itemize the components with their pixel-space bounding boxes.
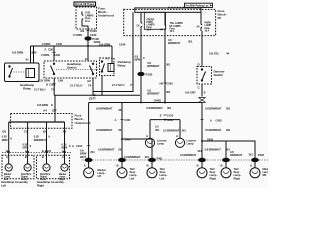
svg-text:Lamp: Lamp xyxy=(157,142,164,146)
svg-text:0.8 GRY: 0.8 GRY xyxy=(185,90,196,94)
svg-text:C101: C101 xyxy=(45,149,52,153)
wire GRY 8 dimmer to splice xyxy=(201,84,203,97)
marker lamp LR xyxy=(84,162,94,178)
caption headlamp assembly right xyxy=(37,180,66,187)
caption headlamp assembly left xyxy=(1,180,30,187)
headlamp switch dashed box xyxy=(44,61,97,78)
connector C100 terminal labels xyxy=(81,29,98,33)
svg-text:1340: 1340 xyxy=(58,80,64,83)
parklamp relay dashed box xyxy=(100,58,115,76)
bus bar rect inside I/P fuse block xyxy=(135,8,201,12)
splice S404 xyxy=(121,138,123,140)
right trunk below splice xyxy=(201,103,203,142)
wire rail to headlamp switch xyxy=(53,46,55,61)
svg-text:301: 301 xyxy=(155,128,160,132)
svg-text:A: A xyxy=(210,118,212,122)
svg-text:Underhood: Underhood xyxy=(75,121,91,125)
marker lamp RR xyxy=(250,162,260,178)
svg-text:I/P: I/P xyxy=(218,16,222,20)
svg-text:301: 301 xyxy=(198,149,203,153)
connector P100 oval on wire A xyxy=(138,72,144,75)
splice S402 xyxy=(201,140,203,142)
front lamp wires xyxy=(9,128,65,164)
C101 connector bumps xyxy=(8,151,66,153)
svg-text:15 A: 15 A xyxy=(85,20,90,23)
svg-text:S419: S419 xyxy=(167,118,174,122)
connector P100 oval xyxy=(85,37,91,40)
branch wires right xyxy=(202,141,255,163)
connector C410 xyxy=(164,114,167,116)
svg-text:WHT: WHT xyxy=(80,155,86,159)
svg-text:1340: 1340 xyxy=(30,50,37,54)
connector ovals xyxy=(199,158,206,161)
bus bar xyxy=(9,121,65,123)
svg-text:2 ORN: 2 ORN xyxy=(41,53,49,57)
dimmer switch dashed box xyxy=(197,67,212,85)
parklamp relay coil xyxy=(108,64,114,72)
fuse PARK LAMP 15A xyxy=(197,12,212,32)
wire BRN/WHT rail xyxy=(89,102,202,104)
svg-text:0.8 BRN/WHT: 0.8 BRN/WHT xyxy=(205,148,222,152)
svg-text:0.8 ORN: 0.8 ORN xyxy=(99,42,110,46)
connector oval xyxy=(85,158,92,161)
svg-text:P402: P402 xyxy=(258,153,265,157)
svg-text:BRN: BRN xyxy=(135,58,141,62)
svg-text:A: A xyxy=(62,149,64,153)
wire junction to switch E1 xyxy=(87,46,89,61)
connector C402 xyxy=(201,119,204,121)
svg-text:301: 301 xyxy=(226,128,231,132)
fuse block I/P dashed box xyxy=(124,9,216,35)
svg-text:P100: P100 xyxy=(146,72,153,76)
svg-text:301: 301 xyxy=(90,150,95,154)
svg-text:301: 301 xyxy=(188,40,193,44)
headlamp assembly right dashed box xyxy=(37,155,70,179)
svg-text:0.8 ORN: 0.8 ORN xyxy=(12,50,23,54)
svg-text:BRN/WHT: BRN/WHT xyxy=(230,153,243,157)
svg-text:B: B xyxy=(6,149,8,153)
fuse block underhood (top) dashed box xyxy=(76,7,97,29)
svg-text:#1: #1 xyxy=(106,56,110,60)
wire labels 2 ORN 1340 / 2 C201 / 2 ORN 1340 xyxy=(41,42,62,57)
label box Hot With Parking Lamps xyxy=(168,3,213,7)
svg-text:A: A xyxy=(115,118,117,122)
tail stop lamp right 2 xyxy=(221,162,231,178)
svg-text:0.8 BRN/WHT: 0.8 BRN/WHT xyxy=(96,107,113,111)
label Fuse Block - Underhood xyxy=(98,6,114,17)
svg-text:A: A xyxy=(25,149,27,153)
svg-text:301: 301 xyxy=(118,108,123,112)
svg-text:Underhood: Underhood xyxy=(98,14,114,18)
splice symbol xyxy=(199,98,206,103)
svg-text:E1: E1 xyxy=(85,57,89,61)
svg-text:44: 44 xyxy=(226,52,230,56)
connector C401 xyxy=(121,119,124,121)
svg-text:RR: RR xyxy=(263,173,267,177)
splice S408 xyxy=(164,102,166,104)
marker lamp left xyxy=(5,164,12,171)
wire parklamp relay output xyxy=(101,76,103,96)
wire label 0.8 ORN 1340 xyxy=(12,50,37,54)
svg-text:BRN/WHT: BRN/WHT xyxy=(168,41,181,45)
svg-text:A2: A2 xyxy=(87,79,91,83)
svg-text:0.8 BRN: 0.8 BRN xyxy=(37,103,48,107)
terminals D6 C5 B5 A5 xyxy=(2,129,66,133)
branch wire to second tail lamp xyxy=(122,139,152,163)
caption Headlamp Switch xyxy=(67,62,81,70)
caption Dimmer Switch xyxy=(214,70,226,78)
svg-text:2 ORN: 2 ORN xyxy=(42,42,50,46)
svg-text:C2: C2 xyxy=(52,109,56,113)
wire switch left pole drop xyxy=(53,78,55,95)
marker lamp right xyxy=(61,164,68,171)
fuse block underhood (bottom) dashed box xyxy=(11,114,72,129)
branch marker LR: wire down xyxy=(88,103,90,164)
svg-text:A4: A4 xyxy=(43,109,47,113)
headlamp assembly left dashed box xyxy=(2,155,34,179)
svg-text:74: 74 xyxy=(130,83,134,87)
svg-text:0.8 BRN/WHT: 0.8 BRN/WHT xyxy=(96,128,113,132)
svg-text:BRN/WHT: BRN/WHT xyxy=(147,92,160,96)
dimmer switch contact xyxy=(201,69,205,81)
svg-text:74: 74 xyxy=(88,84,92,88)
fuse TAIL LAMPS 15A xyxy=(160,12,183,33)
svg-text:Left: Left xyxy=(130,176,135,180)
svg-text:15 A: 15 A xyxy=(205,29,210,32)
svg-text:1340: 1340 xyxy=(56,42,62,46)
svg-text:Lamp: Lamp xyxy=(187,142,194,146)
switch pole right xyxy=(90,63,94,75)
svg-text:301: 301 xyxy=(167,106,172,110)
svg-text:0.5 BRN/WHT: 0.5 BRN/WHT xyxy=(163,128,180,132)
svg-text:0.8 BRN/WHT: 0.8 BRN/WHT xyxy=(180,153,197,157)
svg-text:Relay: Relay xyxy=(118,64,126,68)
splice S419 xyxy=(164,119,166,121)
wire labels col1 0.35 BRN 9 xyxy=(2,135,13,142)
label Fuse Block - Underhood xyxy=(75,114,91,125)
svg-text:LR: LR xyxy=(98,174,102,178)
svg-text:C410: C410 xyxy=(167,113,174,117)
tail stop lamp left 2 xyxy=(147,162,157,178)
svg-text:2 LT BLU: 2 LT BLU xyxy=(112,83,124,87)
svg-text:Switch: Switch xyxy=(214,73,224,77)
svg-text:301: 301 xyxy=(166,90,171,94)
svg-text:301: 301 xyxy=(145,155,150,159)
svg-text:BRN/WHT: BRN/WHT xyxy=(147,64,160,68)
svg-text:#1: #1 xyxy=(26,57,30,61)
svg-text:C201: C201 xyxy=(49,82,56,86)
svg-text:301: 301 xyxy=(118,128,123,132)
license lamp Y split xyxy=(150,120,180,138)
park/turn lamp right xyxy=(43,164,50,171)
fuse AUX LAMPS 15A xyxy=(82,12,94,30)
headlamp relay contact xyxy=(9,66,26,77)
svg-text:Switch: Switch xyxy=(67,65,77,69)
switch pole left xyxy=(51,63,55,75)
svg-text:E: E xyxy=(160,113,162,117)
svg-text:15 A: 15 A xyxy=(147,29,152,32)
wire fuse to junction xyxy=(87,29,89,46)
wire labels col3 0.35 BRN/WHT 9 xyxy=(34,135,51,142)
svg-text:C102: C102 xyxy=(76,144,83,148)
connector ovals xyxy=(119,158,126,161)
svg-text:0.8 YEL: 0.8 YEL xyxy=(209,52,219,56)
wire labels 0.35 ORN 1340 / B C201 / 2 LT BLU 74 xyxy=(34,79,64,92)
wire park rail xyxy=(54,94,140,96)
fuse FRT PARK LAMPS xyxy=(137,12,166,31)
wire label 2 ORN 1340 xyxy=(73,33,97,37)
svg-text:1340: 1340 xyxy=(119,42,126,46)
svg-text:C201: C201 xyxy=(48,48,55,52)
svg-text:Relay: Relay xyxy=(23,87,31,91)
svg-text:B: B xyxy=(46,82,48,86)
wire label 2 LT BLU 74 xyxy=(112,83,134,87)
svg-text:B: B xyxy=(42,149,44,153)
wire park feed from IP fuse block xyxy=(93,12,133,91)
wire ORN rail xyxy=(31,45,113,47)
trunk B below S408 xyxy=(146,106,171,110)
body connector dashed line xyxy=(82,159,268,161)
connector C102 xyxy=(87,145,90,147)
license lamp 2 xyxy=(175,138,184,147)
wire label 0.8 ORN 1340 right of junction xyxy=(99,42,126,46)
svg-text:Left: Left xyxy=(160,176,165,180)
svg-text:Right: Right xyxy=(210,176,217,180)
svg-text:0.8 BRN/WHT: 0.8 BRN/WHT xyxy=(98,147,115,151)
caption Headlamp Relay xyxy=(20,83,34,91)
branch tail/stop left pair: wire down xyxy=(121,103,123,164)
label box Hot at All Times xyxy=(74,2,96,6)
wire BRN 9 from I/P fuse (wire A) xyxy=(140,30,142,103)
wire labels col4 0.35 BRN 9 xyxy=(62,142,72,149)
mechanical link dashed xyxy=(56,69,103,71)
svg-text:Left: Left xyxy=(1,183,6,187)
headlamp relay box xyxy=(5,63,40,82)
svg-text:0.8 BRN/WHT: 0.8 BRN/WHT xyxy=(205,106,222,110)
svg-text:2 LT BLU: 2 LT BLU xyxy=(34,88,45,92)
svg-text:2 ORN: 2 ORN xyxy=(73,33,82,37)
svg-text:S277: S277 xyxy=(89,97,96,101)
svg-text:0.8 BRN/WHT: 0.8 BRN/WHT xyxy=(146,106,163,110)
wire BRN/WHT 301 trunk (wire B) xyxy=(164,32,166,103)
connector C101 dashed line xyxy=(2,152,71,154)
svg-text:0.8 BRN/WHT: 0.8 BRN/WHT xyxy=(124,155,141,159)
license lamp 1 xyxy=(145,138,154,147)
svg-text:BRN/WHT: BRN/WHT xyxy=(34,138,47,142)
svg-text:C401: C401 xyxy=(124,118,131,122)
parklamp relay contact xyxy=(101,61,104,72)
svg-text:Hot With Parking Lps: Hot With Parking Lps xyxy=(186,5,210,8)
svg-text:D6: D6 xyxy=(2,129,6,133)
svg-text:BRN: BRN xyxy=(2,138,8,142)
wire YEL 44 fuse to dimmer switch xyxy=(201,31,203,67)
park/turn lamp left xyxy=(24,164,31,171)
svg-text:0.8 BRN/WHT: 0.8 BRN/WHT xyxy=(205,128,222,132)
svg-text:C200: C200 xyxy=(167,81,174,85)
wires rail to headlamp relay xyxy=(31,46,34,63)
svg-text:15 A: 15 A xyxy=(170,30,175,33)
svg-text:301: 301 xyxy=(118,147,123,151)
svg-text:1340: 1340 xyxy=(54,53,60,57)
tail stop lamp left 1 xyxy=(117,162,127,178)
bus drops xyxy=(9,122,65,128)
wire switch right pole drop A2 xyxy=(92,78,94,95)
svg-text:S408: S408 xyxy=(154,99,161,103)
wire labels col2 0.35 GRN xyxy=(22,142,31,149)
svg-text:Hot at All Times: Hot at All Times xyxy=(75,2,95,6)
label Fuse Block - I/P xyxy=(218,9,228,20)
connector C200 xyxy=(164,82,167,84)
svg-text:2 LT BLU: 2 LT BLU xyxy=(70,84,82,88)
svg-text:301: 301 xyxy=(249,153,254,157)
splice S277 xyxy=(94,94,96,96)
svg-text:Right: Right xyxy=(234,176,241,180)
svg-text:Right: Right xyxy=(37,183,44,187)
tail stop lamp right 1 xyxy=(197,162,207,178)
wire rail to parklamp relay coil xyxy=(111,46,113,64)
wire A4 C2 drop to underhood fuse block xyxy=(54,95,56,122)
junction dot xyxy=(87,45,89,47)
svg-text:301: 301 xyxy=(182,128,187,132)
svg-text:301: 301 xyxy=(226,106,231,110)
svg-text:C402: C402 xyxy=(216,118,223,122)
svg-text:301: 301 xyxy=(166,62,171,66)
svg-text:A: A xyxy=(72,144,74,148)
headlamp relay coil xyxy=(26,69,35,78)
caption Parklamp Relay xyxy=(118,60,131,68)
